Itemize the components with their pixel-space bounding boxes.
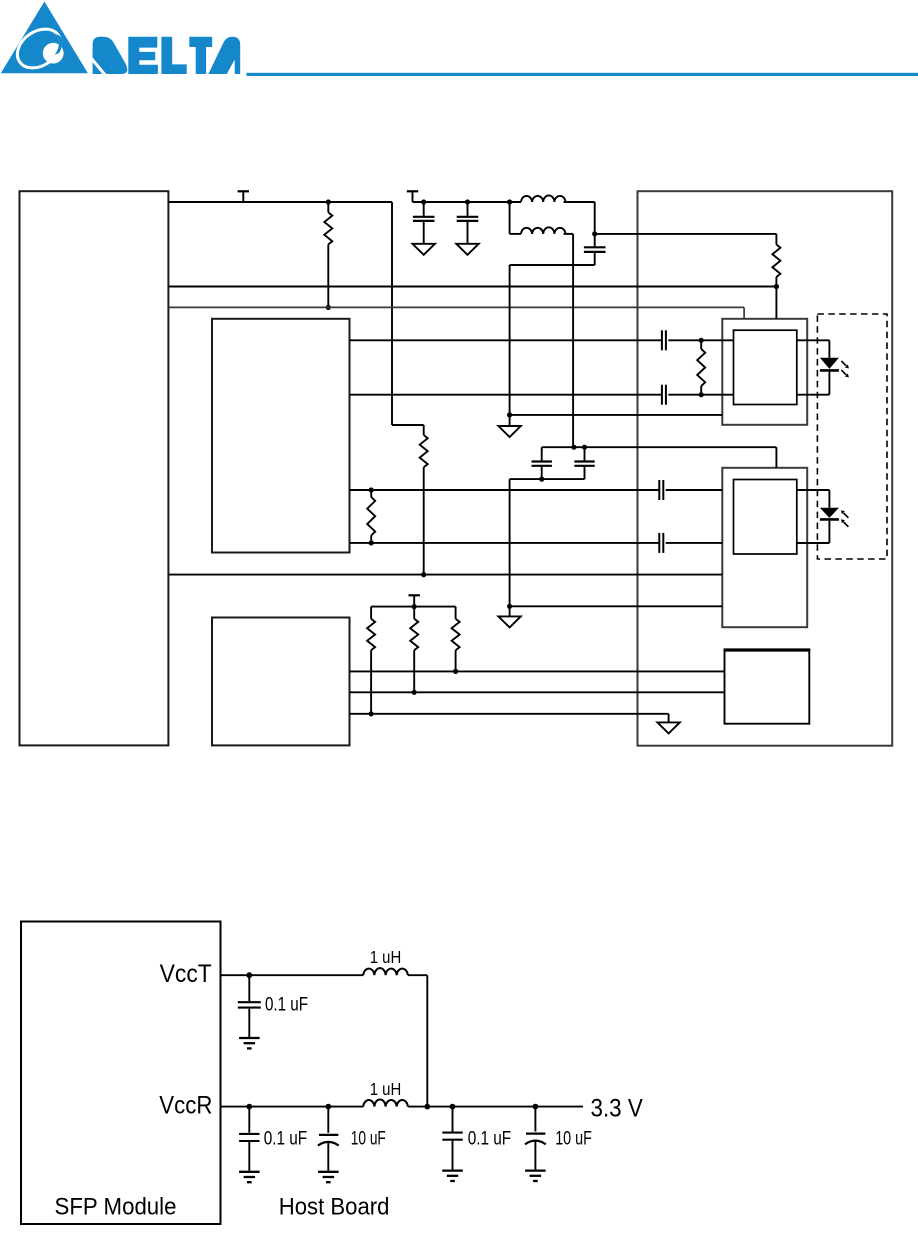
junction dot C7 top	[465, 199, 470, 204]
wire C3 bottom to ground	[510, 264, 595, 266]
capacitor C14 (10 uF)	[327, 1107, 329, 1133]
ground arrow node 1	[509, 415, 511, 426]
wire VccR rail	[221, 1106, 364, 1108]
wire w9	[350, 691, 725, 693]
photodiode D2 incident arrows	[844, 513, 849, 518]
Delta logo triangle	[1, 2, 88, 74]
power tap T3	[409, 594, 420, 596]
resistor R2 (VccT to w2/TOSA)	[775, 234, 777, 245]
ROSA outer block	[722, 468, 807, 627]
wire w4b RD+	[350, 489, 659, 491]
capacitor C7	[467, 202, 469, 216]
resistor R4 (TX termination)	[700, 340, 702, 349]
pull-up rail	[371, 606, 456, 608]
ground IEC C14	[318, 1171, 339, 1173]
junction dot rail/L2	[571, 445, 576, 450]
wire rail down to ROSA	[775, 447, 777, 468]
ground IEC C13	[239, 1171, 260, 1173]
wire VccT	[221, 974, 364, 976]
capacitor C5	[584, 447, 586, 460]
Delta logo white circle	[43, 43, 64, 64]
junction dot R2/w2	[774, 284, 779, 289]
wire w4 TD+	[350, 339, 662, 341]
svg-text:0.1 uF: 0.1 uF	[265, 994, 308, 1015]
junction dot C16 top	[533, 1104, 539, 1110]
wire gnd node 2 to ROSA	[510, 605, 723, 607]
resistor R7 (pull-up)	[413, 607, 415, 619]
junction dot C14 top	[325, 1104, 331, 1110]
capacitor C9 (series, TD-)	[661, 385, 663, 405]
capacitor C10 (series, RD+)	[658, 480, 660, 500]
svg-text:0.1 uF: 0.1 uF	[468, 1129, 512, 1150]
wire w10 ground stem	[668, 714, 670, 723]
Delta logo swirl ring	[10, 21, 68, 76]
svg-text:VccT: VccT	[160, 960, 212, 988]
logo letter D (delta)	[93, 37, 128, 74]
photodiode D2	[820, 508, 839, 518]
blue header rule	[247, 73, 918, 76]
junction dot w10/R6	[369, 711, 374, 716]
svg-text:Host Board: Host Board	[279, 1193, 390, 1220]
ground IEC C16	[525, 1169, 546, 1171]
svg-text:10 uF: 10 uF	[351, 1129, 386, 1150]
junction dot C6 top	[421, 199, 426, 204]
power tap T1	[238, 190, 249, 192]
capacitor C6	[423, 202, 425, 216]
junction dot RD-/Rterm	[369, 540, 374, 545]
module enclosure (right box)	[638, 191, 893, 746]
capacitor C13 (0.1 uF)	[248, 1107, 250, 1133]
capacitor C3	[594, 234, 596, 246]
capacitor C16 (10 uF)	[534, 1107, 536, 1132]
wire w5 TD-	[350, 394, 662, 396]
SFP connector block (left box)	[20, 191, 169, 745]
wire TOSA cathode stub	[828, 372, 830, 395]
controller IC block (box U3)	[212, 618, 350, 746]
optical interface dashed box	[817, 314, 887, 559]
inductor L4 (1 uH)	[363, 1100, 408, 1107]
capacitor C12 (0.1 uF)	[248, 975, 250, 1001]
wire w1 (left box to corner)	[168, 201, 392, 203]
inductor L3 (1 uH)	[363, 968, 408, 975]
wire w2	[168, 286, 776, 288]
laser driver IC block (box U2)	[212, 319, 350, 553]
wire ROSA cathode stub	[828, 521, 830, 543]
wire ROSA anode stub	[797, 489, 830, 491]
LED D1 emission arrows	[841, 361, 846, 366]
junction dot C15 top	[450, 1104, 456, 1110]
resistor R1 (w1 to w3)	[326, 199, 331, 204]
SFP cage block (box at bottom right)	[725, 650, 810, 724]
svg-text:3.3 V: 3.3 V	[591, 1095, 643, 1123]
junction dot w8/R8	[453, 669, 458, 674]
svg-text:SFP Module: SFP Module	[55, 1194, 177, 1221]
ground arrow under C7	[456, 244, 478, 255]
TOSA outer block	[722, 319, 807, 425]
capacitor C8 (series, TD+)	[661, 330, 663, 350]
ROSA inner block	[734, 480, 797, 555]
junction dot under L1	[592, 231, 597, 236]
junction dot RD+/Rterm	[369, 487, 374, 492]
ground arrow w10	[657, 722, 679, 733]
wire from L2 down to RX filter	[572, 234, 574, 447]
inductor L2	[509, 202, 511, 234]
resistor R3 (to signal wire w6)	[423, 425, 425, 435]
logo letter T	[189, 37, 212, 74]
wire L3 to VccR rail	[426, 975, 428, 1106]
ground IEC C15	[442, 1169, 463, 1171]
wire w1 vertical drop	[391, 202, 393, 425]
wire w3	[168, 306, 744, 308]
junction dot TD+/Rterm	[699, 338, 704, 343]
wire w10	[350, 713, 669, 715]
junction dot gnd node 1	[507, 412, 512, 417]
junction dot C13 top	[246, 1104, 252, 1110]
wire gnd node to TOSA	[510, 414, 723, 416]
ground arrow node 2	[509, 606, 511, 616]
wire w5b RD-	[350, 542, 659, 544]
junction dot gnd node 2	[507, 604, 512, 609]
wire RX filter rail	[542, 446, 777, 448]
svg-text:VccR: VccR	[159, 1092, 212, 1120]
wire VccT feed	[413, 201, 522, 203]
svg-text:10 uF: 10 uF	[555, 1129, 592, 1150]
svg-text:1 uH: 1 uH	[370, 947, 402, 967]
logo letter E	[128, 37, 158, 74]
capacitor C15 (0.1 uF)	[452, 1107, 454, 1132]
wire RX filter bottom rail	[510, 478, 585, 480]
power tap T2	[407, 190, 418, 192]
logo letter L	[161, 37, 186, 74]
LED D1 (laser diode)	[820, 358, 839, 369]
capacitor C11 (series, RD-)	[658, 533, 660, 553]
resistor R5 (RX termination)	[370, 490, 372, 497]
junction dot L1/L2 split	[507, 199, 512, 204]
svg-text:1 uH: 1 uH	[370, 1079, 402, 1099]
wire TOSA anode stub	[797, 339, 830, 341]
ground arrow under C6	[413, 244, 435, 255]
wire w233 (L1 node to R2)	[595, 233, 777, 235]
resistor R8 (pull-up)	[455, 607, 457, 619]
junction dot T3/rail	[412, 604, 417, 609]
svg-text:0.1 uF: 0.1 uF	[264, 1129, 308, 1150]
inductor L1	[521, 195, 566, 202]
TOSA inner block	[734, 330, 797, 404]
wire w8	[350, 670, 725, 672]
ground IEC C12	[239, 1037, 260, 1039]
logo letter A (delta)	[208, 37, 240, 74]
junction dot L3/L4 node	[424, 1104, 430, 1110]
junction dot TD-/Rterm	[699, 392, 704, 397]
junction dot w9/R7	[412, 690, 417, 695]
junction dot rail/C5	[582, 445, 587, 450]
resistor R6 (pull-up)	[370, 607, 372, 619]
wire w6	[168, 574, 722, 576]
SFP module box (lower)	[21, 922, 221, 1225]
junction dot C4 bottom	[539, 477, 544, 482]
junction dot VccT node	[246, 972, 252, 978]
capacitor C4	[541, 447, 543, 460]
junction dot w6/R3	[421, 572, 426, 577]
